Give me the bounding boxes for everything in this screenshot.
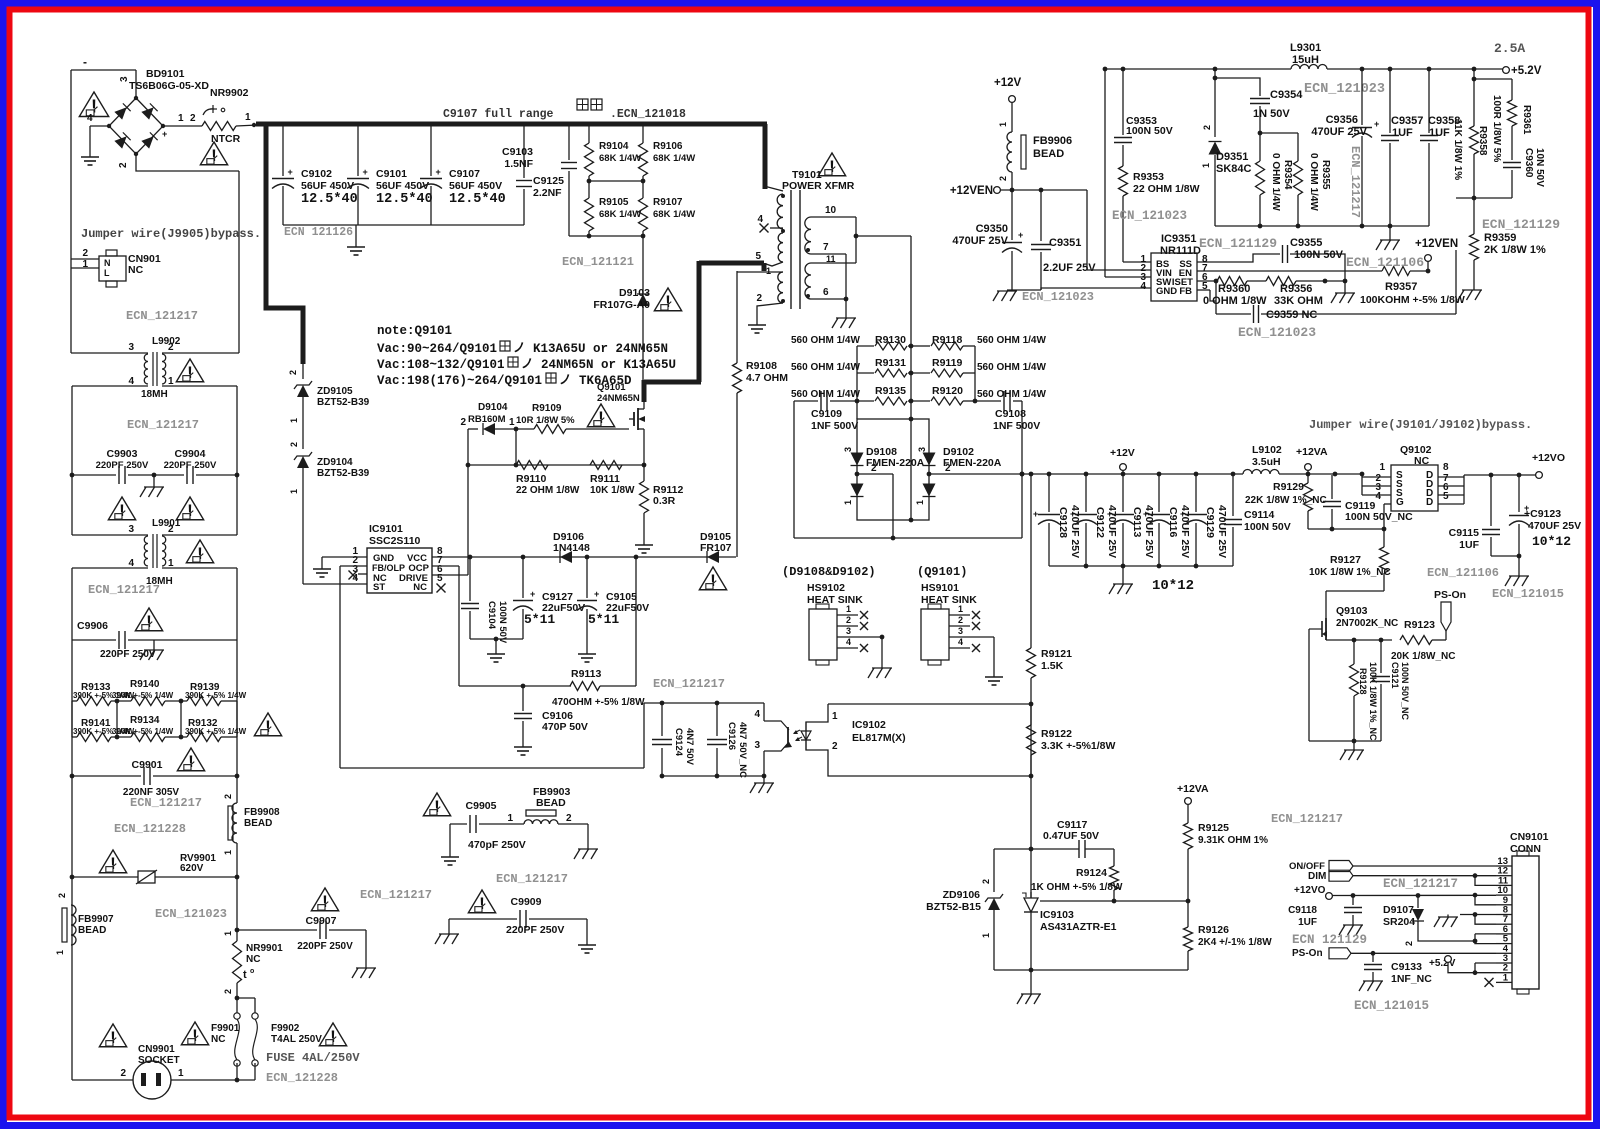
svg-text:(Q9101): (Q9101)	[917, 565, 967, 579]
svg-text:470UF 25V: 470UF 25V	[1311, 126, 1367, 138]
svg-text:+12VEN: +12VEN	[950, 185, 993, 197]
thick bus top horizontal	[256, 122, 767, 127]
ground chassis D9107	[1434, 912, 1496, 927]
svg-text:Q9103: Q9103	[1336, 605, 1368, 617]
svg-text:ECN_121217: ECN_121217	[1383, 877, 1458, 891]
pin 1 label CN901	[82, 259, 88, 270]
svg-text:FR107: FR107	[700, 542, 732, 554]
label Vac line2	[377, 357, 676, 372]
resistor R9358 11K	[1452, 69, 1488, 198]
label R9118	[932, 334, 963, 346]
svg-text:11K 1/8W 1%: 11K 1/8W 1%	[1452, 119, 1463, 180]
wire L9902 pin1 to right vertical	[162, 386, 237, 475]
svg-text:CONN: CONN	[1510, 843, 1541, 855]
wire D to +12VO	[1464, 473, 1536, 478]
wire Q9103 gate down	[1308, 629, 1310, 668]
svg-text:1: 1	[915, 500, 925, 505]
svg-text:R9357: R9357	[1385, 281, 1417, 293]
svg-text:220PF 250V: 220PF 250V	[164, 460, 217, 471]
svg-text:+: +	[1374, 119, 1379, 129]
terminal +12VO	[1532, 452, 1565, 478]
svg-text:1: 1	[998, 122, 1008, 127]
svg-text:+: +	[1180, 509, 1185, 519]
varistor RV9901 620V	[70, 853, 240, 884]
capacitor C9903 220PF	[70, 448, 154, 484]
svg-text:C9350: C9350	[976, 223, 1008, 235]
wire C9350 C9351 gnd	[1007, 289, 1041, 291]
svg-text:NC: NC	[413, 582, 427, 593]
svg-text:4: 4	[87, 113, 93, 124]
label ECN_121217 r9113	[653, 677, 725, 691]
resistor R9130	[857, 342, 975, 350]
svg-text:470P 50V: 470P 50V	[542, 721, 588, 733]
terminal +12V fb9906	[994, 77, 1022, 132]
svg-text:(D9108&D9102): (D9108&D9102)	[782, 565, 876, 579]
transistor Q9101 24NM65N	[597, 382, 645, 465]
svg-text:R9111: R9111	[590, 473, 620, 485]
svg-text:4: 4	[1375, 491, 1381, 502]
label R9131	[875, 357, 906, 369]
capacitor C9102 56UF 450V	[272, 122, 358, 225]
svg-text:1: 1	[289, 489, 299, 494]
svg-text:15uH: 15uH	[1292, 54, 1319, 66]
wire divider mid	[587, 179, 646, 184]
svg-text:2: 2	[57, 893, 67, 898]
svg-text:12.5*40: 12.5*40	[449, 192, 506, 207]
wire secondary output vertical	[910, 236, 912, 419]
svg-text:2: 2	[1404, 941, 1414, 946]
svg-text:D: D	[1426, 497, 1433, 508]
wire r-network row1	[72, 699, 237, 704]
svg-text:2: 2	[958, 615, 963, 625]
resistor R9111 10K	[590, 461, 635, 497]
pin 4 label T9101	[757, 214, 783, 233]
svg-text:R9124: R9124	[1076, 867, 1107, 879]
label ECN_121217 vert	[1348, 146, 1362, 218]
ground chassis cap bank	[1109, 566, 1133, 594]
capacitor C9106 470P	[514, 686, 588, 740]
capacitor C9109 1NF 500V	[794, 391, 858, 432]
svg-text:100R 1/8W 5%: 100R 1/8W 5%	[1491, 95, 1502, 162]
pin 2 label ZD9106	[981, 879, 991, 884]
svg-text:R9119: R9119	[932, 357, 963, 369]
svg-text:ECN_121217: ECN_121217	[1348, 146, 1362, 218]
svg-text:R9120: R9120	[932, 385, 963, 397]
svg-text:1: 1	[832, 711, 838, 722]
svg-text:4.7 OHM: 4.7 OHM	[746, 372, 788, 384]
svg-text:NR9902: NR9902	[210, 87, 249, 99]
bridge rectifier BD9101	[107, 68, 210, 156]
zener ZD9105 BZT52-B39	[294, 364, 370, 449]
svg-text:FB9906: FB9906	[1033, 135, 1072, 147]
thermistor NR9901	[223, 877, 283, 998]
resistor R9129 22K NC	[1245, 474, 1327, 529]
svg-text:2N7002K_NC: 2N7002K_NC	[1336, 618, 1398, 629]
svg-text:10K 1/8W: 10K 1/8W	[590, 485, 635, 496]
wire C9109 left vertical	[793, 401, 795, 538]
svg-text:C9126: C9126	[726, 722, 737, 750]
svg-text:RB160M: RB160M	[468, 414, 506, 425]
capacitor C9117 0.47UF	[1043, 819, 1114, 866]
ground earth R9112	[635, 538, 653, 553]
svg-text:3: 3	[843, 447, 853, 452]
diode D9107 SR204	[1383, 895, 1475, 946]
svg-text:IC9351: IC9351	[1161, 233, 1196, 245]
svg-text:BEAD: BEAD	[1033, 148, 1064, 160]
label hanzi	[577, 99, 686, 121]
svg-text:IC9101: IC9101	[369, 523, 403, 535]
svg-text:ECN_121228: ECN_121228	[266, 1071, 338, 1085]
wire R9110 R9111 row	[466, 463, 647, 468]
wire Q9102 S pins	[1362, 475, 1391, 495]
svg-text:4: 4	[757, 214, 763, 225]
label ECN_121217 c9901	[130, 796, 202, 810]
wire IC9101 pin1 gnd	[322, 557, 367, 562]
svg-text:C9104: C9104	[486, 601, 497, 630]
svg-text:+12VEN: +12VEN	[1415, 238, 1458, 250]
wire +12VO to pin10	[1332, 893, 1496, 898]
inductor L9301 15uH	[1290, 42, 1327, 69]
svg-text:ECN_121217: ECN_121217	[653, 677, 725, 691]
socket CN9901	[133, 1044, 180, 1099]
svg-text:Jumper wire(J9101/J9102)bypass: Jumper wire(J9101/J9102)bypass.	[1309, 418, 1532, 432]
svg-text:1UF: 1UF	[1459, 539, 1479, 551]
diode D9104 RB160M	[468, 402, 534, 435]
svg-text:F9901: F9901	[211, 1023, 240, 1034]
pin 2 label T9101	[756, 293, 762, 304]
resistor R9112 0.3R	[640, 465, 684, 538]
wire R9122 down	[1030, 776, 1032, 898]
diode D9102 FMEN-220A	[923, 446, 1002, 497]
svg-text:11: 11	[826, 254, 836, 264]
fuse F9901 NC	[211, 998, 240, 1080]
svg-text:ECN_121217: ECN_121217	[126, 309, 198, 323]
svg-text:R9356: R9356	[1280, 283, 1312, 295]
svg-text:R9113: R9113	[571, 668, 602, 680]
svg-text:1: 1	[507, 813, 513, 824]
svg-text:ECN_121023: ECN_121023	[1238, 325, 1316, 340]
resistor R9109 10R	[516, 403, 575, 434]
svg-text:7: 7	[823, 242, 829, 253]
svg-text:8: 8	[1443, 462, 1449, 473]
svg-text:0 OHM 1/4W: 0 OHM 1/4W	[1308, 153, 1319, 211]
label ECN_121217 box2	[127, 418, 199, 432]
svg-text:3.5uH: 3.5uH	[1252, 456, 1281, 468]
transistor Q9102 NC	[1391, 444, 1438, 511]
pins HS9102	[837, 604, 884, 668]
pin 6 label T9101	[823, 287, 829, 298]
svg-text:D9351: D9351	[1216, 151, 1248, 163]
svg-text:T4AL 250V: T4AL 250V	[271, 1034, 322, 1045]
svg-text:68K 1/4W: 68K 1/4W	[653, 209, 695, 220]
wire L9901 pin1 down	[162, 568, 237, 640]
svg-text:1: 1	[1201, 163, 1211, 168]
svg-text:IC9102: IC9102	[852, 719, 886, 731]
terminal +12VEN left	[950, 185, 1001, 197]
svg-text:5*11: 5*11	[588, 612, 619, 627]
svg-text:9.31K OHM 1%: 9.31K OHM 1%	[1198, 835, 1268, 846]
label Jumper wire J9905	[81, 227, 261, 241]
svg-text:1: 1	[55, 950, 65, 955]
warning triangle near D9103	[654, 288, 681, 311]
svg-text:C9107: C9107	[449, 168, 480, 180]
svg-text:1: 1	[509, 417, 515, 428]
wire +12VEN to VIN	[1087, 190, 1151, 270]
wire center through box	[910, 419, 912, 520]
svg-text:BEAD: BEAD	[244, 818, 272, 829]
wire opto pin4	[763, 703, 765, 721]
wire opto top feed	[644, 701, 764, 706]
ground chassis error amp	[1017, 970, 1041, 1004]
wire NTC to bus	[236, 125, 258, 126]
wire opto gnd rail	[660, 774, 767, 779]
terminal +5.2V	[1503, 65, 1542, 77]
wire R9128 C9121 bottom	[1309, 668, 1381, 743]
wire snubber bottom rail	[794, 537, 1022, 539]
pin 4 label	[87, 113, 93, 124]
capacitor C9128 470UF 25V	[1033, 474, 1081, 566]
label C9107 full range	[443, 108, 554, 121]
label R9120	[932, 385, 963, 397]
wire cap bank bottom rail	[1049, 564, 1233, 569]
warning triangle under C9903	[108, 497, 135, 520]
capacitor C9133 1NF NC	[1364, 953, 1432, 985]
capacitor C9354 1N 50V	[1213, 76, 1304, 133]
svg-text:.ECN_121018: .ECN_121018	[610, 108, 686, 121]
svg-text:+: +	[288, 167, 293, 177]
wire matrix left vertical	[856, 346, 858, 419]
pin 3 label D9102	[917, 447, 927, 452]
svg-text:2: 2	[288, 370, 298, 375]
warning triangle C9909	[468, 890, 495, 913]
resistor R9131	[857, 369, 975, 377]
warning triangle Q9101	[587, 404, 614, 427]
wire pin10	[811, 217, 858, 263]
svg-text:2: 2	[981, 879, 991, 884]
svg-text:1UF: 1UF	[1298, 917, 1317, 928]
resistor R9107 68K	[639, 181, 696, 236]
resistor R9125 9.31K	[1184, 806, 1269, 901]
svg-text:SOCKET: SOCKET	[138, 1055, 180, 1066]
label 560 OHM row2 left	[791, 362, 860, 373]
svg-text:0 OHM 1/4W: 0 OHM 1/4W	[1270, 153, 1281, 211]
svg-text:5*11: 5*11	[524, 612, 555, 627]
svg-text:ノ K13A65U or 24NM65N: ノ K13A65U or 24NM65N	[513, 342, 668, 356]
label ECN_121217 dim	[1383, 877, 1458, 891]
flag PS-On q9103	[1434, 589, 1466, 640]
resistor R9353 22 OHM	[1119, 166, 1200, 262]
resistor R9360 0 OHM	[1203, 277, 1267, 308]
ground chassis C9118	[1339, 925, 1363, 935]
ground chassis R9359	[1458, 290, 1482, 300]
pin 1 label D9102	[915, 500, 925, 505]
svg-text:470pF 250V: 470pF 250V	[468, 839, 526, 851]
svg-text:SK84C: SK84C	[1216, 163, 1252, 175]
svg-text:+: +	[1107, 509, 1112, 519]
wire R9361 branch	[1472, 77, 1512, 82]
svg-text:ECN_121217: ECN_121217	[127, 418, 199, 432]
svg-text:100N 50V: 100N 50V	[1294, 249, 1344, 261]
wire SW vertical	[1105, 69, 1151, 277]
wire R9358 C9360 junction	[1456, 196, 1512, 201]
capacitor C9907 220PF	[237, 915, 366, 968]
wire ISET FB stubs	[1197, 279, 1218, 314]
wire socket right	[171, 1078, 255, 1083]
svg-text:220PF 250V: 220PF 250V	[100, 649, 156, 660]
svg-text:3: 3	[917, 447, 927, 452]
wire T9101 pin5 curl	[766, 262, 783, 266]
minus sign label	[83, 55, 87, 69]
svg-text:TS6B06G-05-XD: TS6B06G-05-XD	[129, 80, 209, 92]
capacitor C9351 2.2UF	[1031, 190, 1096, 290]
wire IC9101 pin2 FB	[340, 566, 367, 768]
svg-text:NC: NC	[128, 264, 144, 276]
svg-text:1N4148: 1N4148	[553, 542, 590, 554]
label Jumper wire J9101	[1309, 418, 1532, 432]
svg-text:R9104: R9104	[599, 141, 629, 152]
svg-text:5: 5	[755, 251, 761, 262]
wire left vertical of jumper box	[70, 70, 72, 353]
terminal +12VO cn	[1294, 885, 1332, 899]
wire r-network row2	[72, 735, 237, 740]
ferrite bead FB9908	[223, 776, 280, 877]
wire IC9101 pin8 VCC	[432, 555, 736, 560]
svg-text:+: +	[1033, 509, 1038, 519]
thick wire pin5 to drain	[644, 261, 764, 402]
label 560 OHM row3 left	[791, 389, 860, 400]
wire bridge left to ground	[90, 126, 109, 150]
svg-text:3.3K +-5%1/8W: 3.3K +-5%1/8W	[1041, 740, 1115, 752]
svg-text:1NF 500V: 1NF 500V	[993, 420, 1040, 432]
terminal +12VEN right	[1415, 238, 1458, 261]
ferrite bead FB9907	[55, 893, 114, 955]
svg-text:C9903: C9903	[107, 448, 138, 460]
resistor R9357 100K	[1360, 261, 1465, 306]
ground earth bulk caps	[347, 225, 365, 255]
svg-text:R9125: R9125	[1198, 822, 1229, 834]
wire box bottom to L9902 pin3	[71, 352, 148, 354]
x mark pin5	[437, 584, 446, 593]
svg-text:3: 3	[128, 342, 134, 353]
svg-text:+: +	[162, 129, 167, 139]
warning triangle F9901	[181, 1022, 208, 1045]
svg-text:R9354: R9354	[1282, 160, 1293, 190]
svg-text:ZD9106: ZD9106	[943, 889, 981, 901]
capacitor C9358 1UF	[1420, 69, 1460, 226]
pin 1 label ZD9106	[981, 933, 991, 938]
svg-text:2: 2	[945, 463, 951, 474]
label ECN_121129 r9359	[1482, 217, 1560, 232]
svg-text:C9124: C9124	[673, 728, 684, 757]
wire L9902 pin4 to left vertical	[72, 386, 148, 475]
label ECN_121228	[114, 822, 186, 836]
svg-text:10*12: 10*12	[1532, 534, 1571, 549]
svg-text:EL817M(X): EL817M(X)	[852, 732, 906, 744]
svg-text:20K 1/8W_NC: 20K 1/8W_NC	[1391, 651, 1455, 662]
svg-text:ECN_121121: ECN_121121	[562, 255, 634, 269]
svg-text:C9116: C9116	[1167, 507, 1179, 538]
label R9130	[875, 334, 906, 346]
svg-text:1: 1	[846, 604, 851, 614]
svg-text:2: 2	[120, 1068, 126, 1079]
ground chassis between C9903 C9904	[140, 475, 164, 497]
resistor R9354 0 OHM	[1256, 133, 1294, 226]
svg-text:C9904: C9904	[175, 448, 206, 460]
svg-text:220PF 250V: 220PF 250V	[297, 941, 353, 952]
ground chassis R9356	[1331, 281, 1355, 303]
svg-text:1.5NF: 1.5NF	[504, 158, 533, 170]
svg-text:ECN_121129: ECN_121129	[1482, 217, 1560, 232]
svg-text:+: +	[594, 589, 599, 599]
svg-text:L9301: L9301	[1290, 42, 1321, 54]
pin labels IC9351 right	[1202, 254, 1208, 292]
svg-text:2: 2	[82, 248, 88, 259]
svg-text:D9104: D9104	[478, 402, 508, 413]
svg-text:2: 2	[190, 113, 196, 124]
svg-text:CN9901: CN9901	[138, 1044, 175, 1055]
svg-text:1.5K: 1.5K	[1041, 660, 1064, 672]
svg-text:NR9901: NR9901	[246, 943, 283, 954]
ground chassis opto	[750, 776, 774, 793]
pins CN9101	[1496, 856, 1512, 983]
svg-text:1: 1	[178, 113, 184, 124]
svg-text:BZT52-B39: BZT52-B39	[317, 468, 370, 479]
svg-text:0.47UF 50V: 0.47UF 50V	[1043, 830, 1099, 842]
capacitor C9116 470UF 25V	[1143, 474, 1191, 566]
ground earth C9104	[487, 637, 505, 662]
capacitor C9105 22uF	[577, 557, 649, 647]
label ECN_121217 reg	[1271, 812, 1343, 826]
wire R9129 bottom row	[1308, 527, 1386, 532]
capacitor C9901 220NF 305V	[70, 759, 240, 798]
svg-text:+12V: +12V	[994, 77, 1022, 89]
wire 5V rail	[1327, 67, 1503, 72]
resistor R9128 100K NC	[1350, 640, 1379, 741]
capacitor C9355 100N	[1197, 237, 1345, 281]
label ECN 121129 cn	[1292, 933, 1367, 947]
svg-text:R9358: R9358	[1477, 126, 1488, 156]
warning triangle L9902	[176, 359, 203, 382]
ground earth T9101 pin2	[748, 318, 766, 333]
label Q9101 group	[917, 565, 967, 579]
flag PS-On cn	[1292, 948, 1496, 959]
ground chassis HS9102	[868, 668, 892, 678]
capacitor C9129 470UF 25V	[1180, 474, 1228, 566]
resistor R9110 22 OHM	[516, 461, 580, 497]
svg-text:470UF 25V: 470UF 25V	[1528, 520, 1581, 532]
svg-text:2: 2	[832, 741, 838, 752]
svg-text:R9361: R9361	[1521, 105, 1532, 135]
svg-text:33K OHM: 33K OHM	[1274, 295, 1323, 307]
label ECN_121106 q9102	[1427, 566, 1499, 580]
svg-text:100N 50V: 100N 50V	[497, 601, 508, 644]
svg-text:C9121: C9121	[1390, 662, 1400, 689]
svg-text:+: +	[1070, 509, 1075, 519]
connector CN9101 CONN	[1510, 831, 1549, 994]
svg-text:PS-On: PS-On	[1292, 948, 1323, 959]
diode D9105 FR107	[700, 531, 732, 563]
capacitor C9101 56UF 450V	[347, 122, 433, 225]
svg-text:100K 1/8W 1%_NC: 100K 1/8W 1%_NC	[1368, 662, 1378, 741]
resistor R9356 33K	[1266, 277, 1347, 308]
svg-text:100KOHM +-5% 1/8W: 100KOHM +-5% 1/8W	[1360, 294, 1465, 306]
label ECN_121023 l9301	[1304, 82, 1385, 97]
pin 1 label socket	[178, 1068, 184, 1079]
svg-text:4: 4	[1140, 281, 1146, 292]
fuse F9902 T4AL	[252, 1013, 322, 1080]
warning triangle under C9904	[176, 497, 203, 520]
warning triangle D9105	[699, 567, 726, 590]
